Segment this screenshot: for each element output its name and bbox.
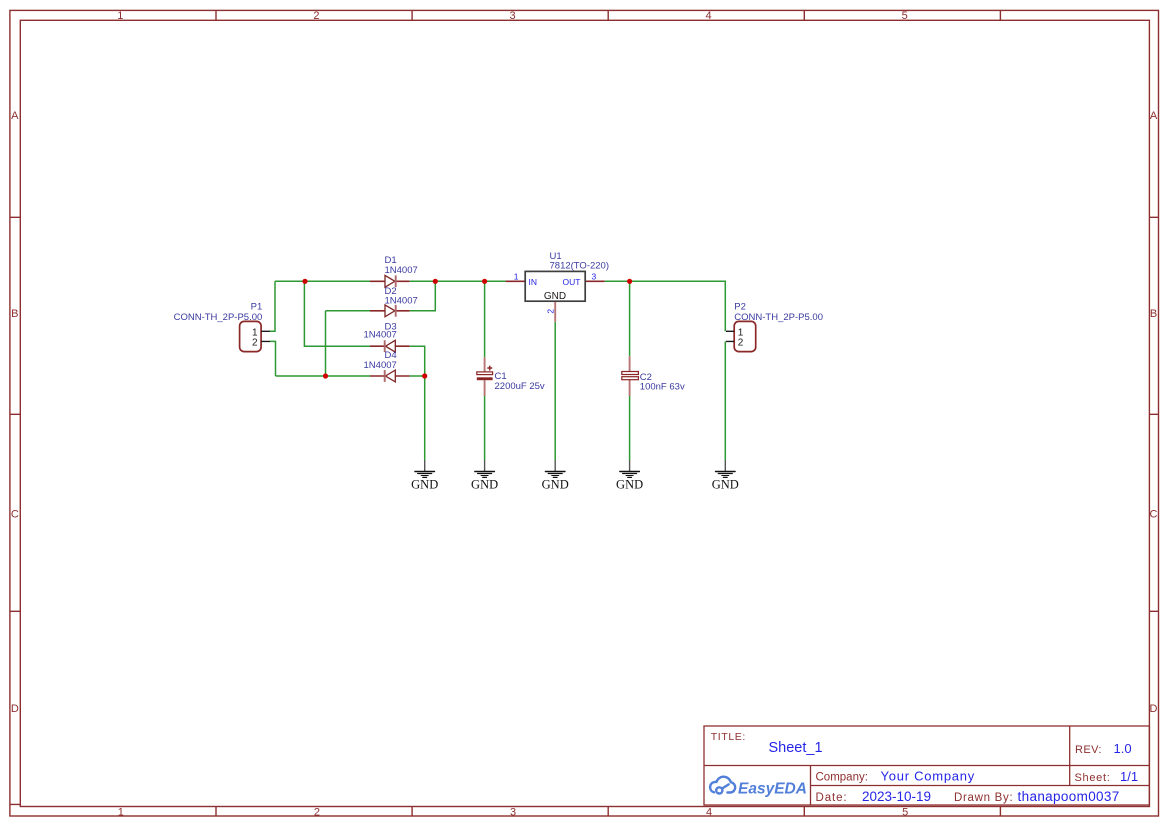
svg-text:B: B [11,308,18,320]
svg-text:2: 2 [252,338,258,349]
svg-text:5: 5 [902,807,908,819]
svg-text:2023-10-19: 2023-10-19 [862,789,931,804]
svg-text:1: 1 [118,807,124,819]
svg-text:Sheet:: Sheet: [1075,772,1111,784]
svg-text:1.0: 1.0 [1114,741,1132,756]
svg-text:C: C [11,509,19,521]
svg-text:1N4007: 1N4007 [385,265,418,276]
svg-text:D: D [1150,703,1158,715]
svg-text:Your Company: Your Company [881,769,976,784]
svg-text:Sheet_1: Sheet_1 [769,740,823,756]
svg-text:2: 2 [738,338,744,349]
svg-text:3: 3 [592,271,597,281]
svg-text:C: C [1150,509,1158,521]
svg-text:1/1: 1/1 [1120,769,1138,784]
svg-text:100nF 63v: 100nF 63v [640,381,685,392]
svg-text:GND: GND [544,291,566,302]
svg-text:B: B [1150,308,1157,320]
svg-text:2: 2 [546,309,556,314]
svg-text:A: A [1150,110,1158,122]
svg-text:4: 4 [706,10,712,22]
svg-text:A: A [11,110,19,122]
svg-text:1: 1 [514,271,519,281]
svg-text:1N4007: 1N4007 [364,360,397,371]
svg-text:CONN-TH_2P-P5.00: CONN-TH_2P-P5.00 [734,312,823,323]
svg-text:1N4007: 1N4007 [385,295,418,306]
svg-text:4: 4 [706,807,712,819]
svg-text:5: 5 [902,10,908,22]
svg-text:IN: IN [529,277,538,287]
svg-text:Drawn By:: Drawn By: [954,792,1013,804]
svg-text:Company:: Company: [816,772,868,784]
svg-text:OUT: OUT [563,277,581,287]
svg-text:1: 1 [117,10,123,22]
svg-text:TITLE:: TITLE: [711,731,746,743]
svg-text:EasyEDA: EasyEDA [738,781,807,798]
svg-text:2200uF 25v: 2200uF 25v [495,381,545,392]
svg-text:D: D [11,703,19,715]
svg-text:thanapoom0037: thanapoom0037 [1018,789,1120,804]
svg-text:3: 3 [510,807,516,819]
svg-text:3: 3 [509,10,515,22]
svg-text:2: 2 [313,10,319,22]
svg-text:Date:: Date: [816,792,848,804]
svg-text:2: 2 [314,807,320,819]
svg-text:CONN-TH_2P-P5.00: CONN-TH_2P-P5.00 [174,312,263,323]
svg-text:REV:: REV: [1075,744,1102,756]
svg-text:1N4007: 1N4007 [364,330,397,341]
svg-text:7812(TO-220): 7812(TO-220) [550,260,610,271]
